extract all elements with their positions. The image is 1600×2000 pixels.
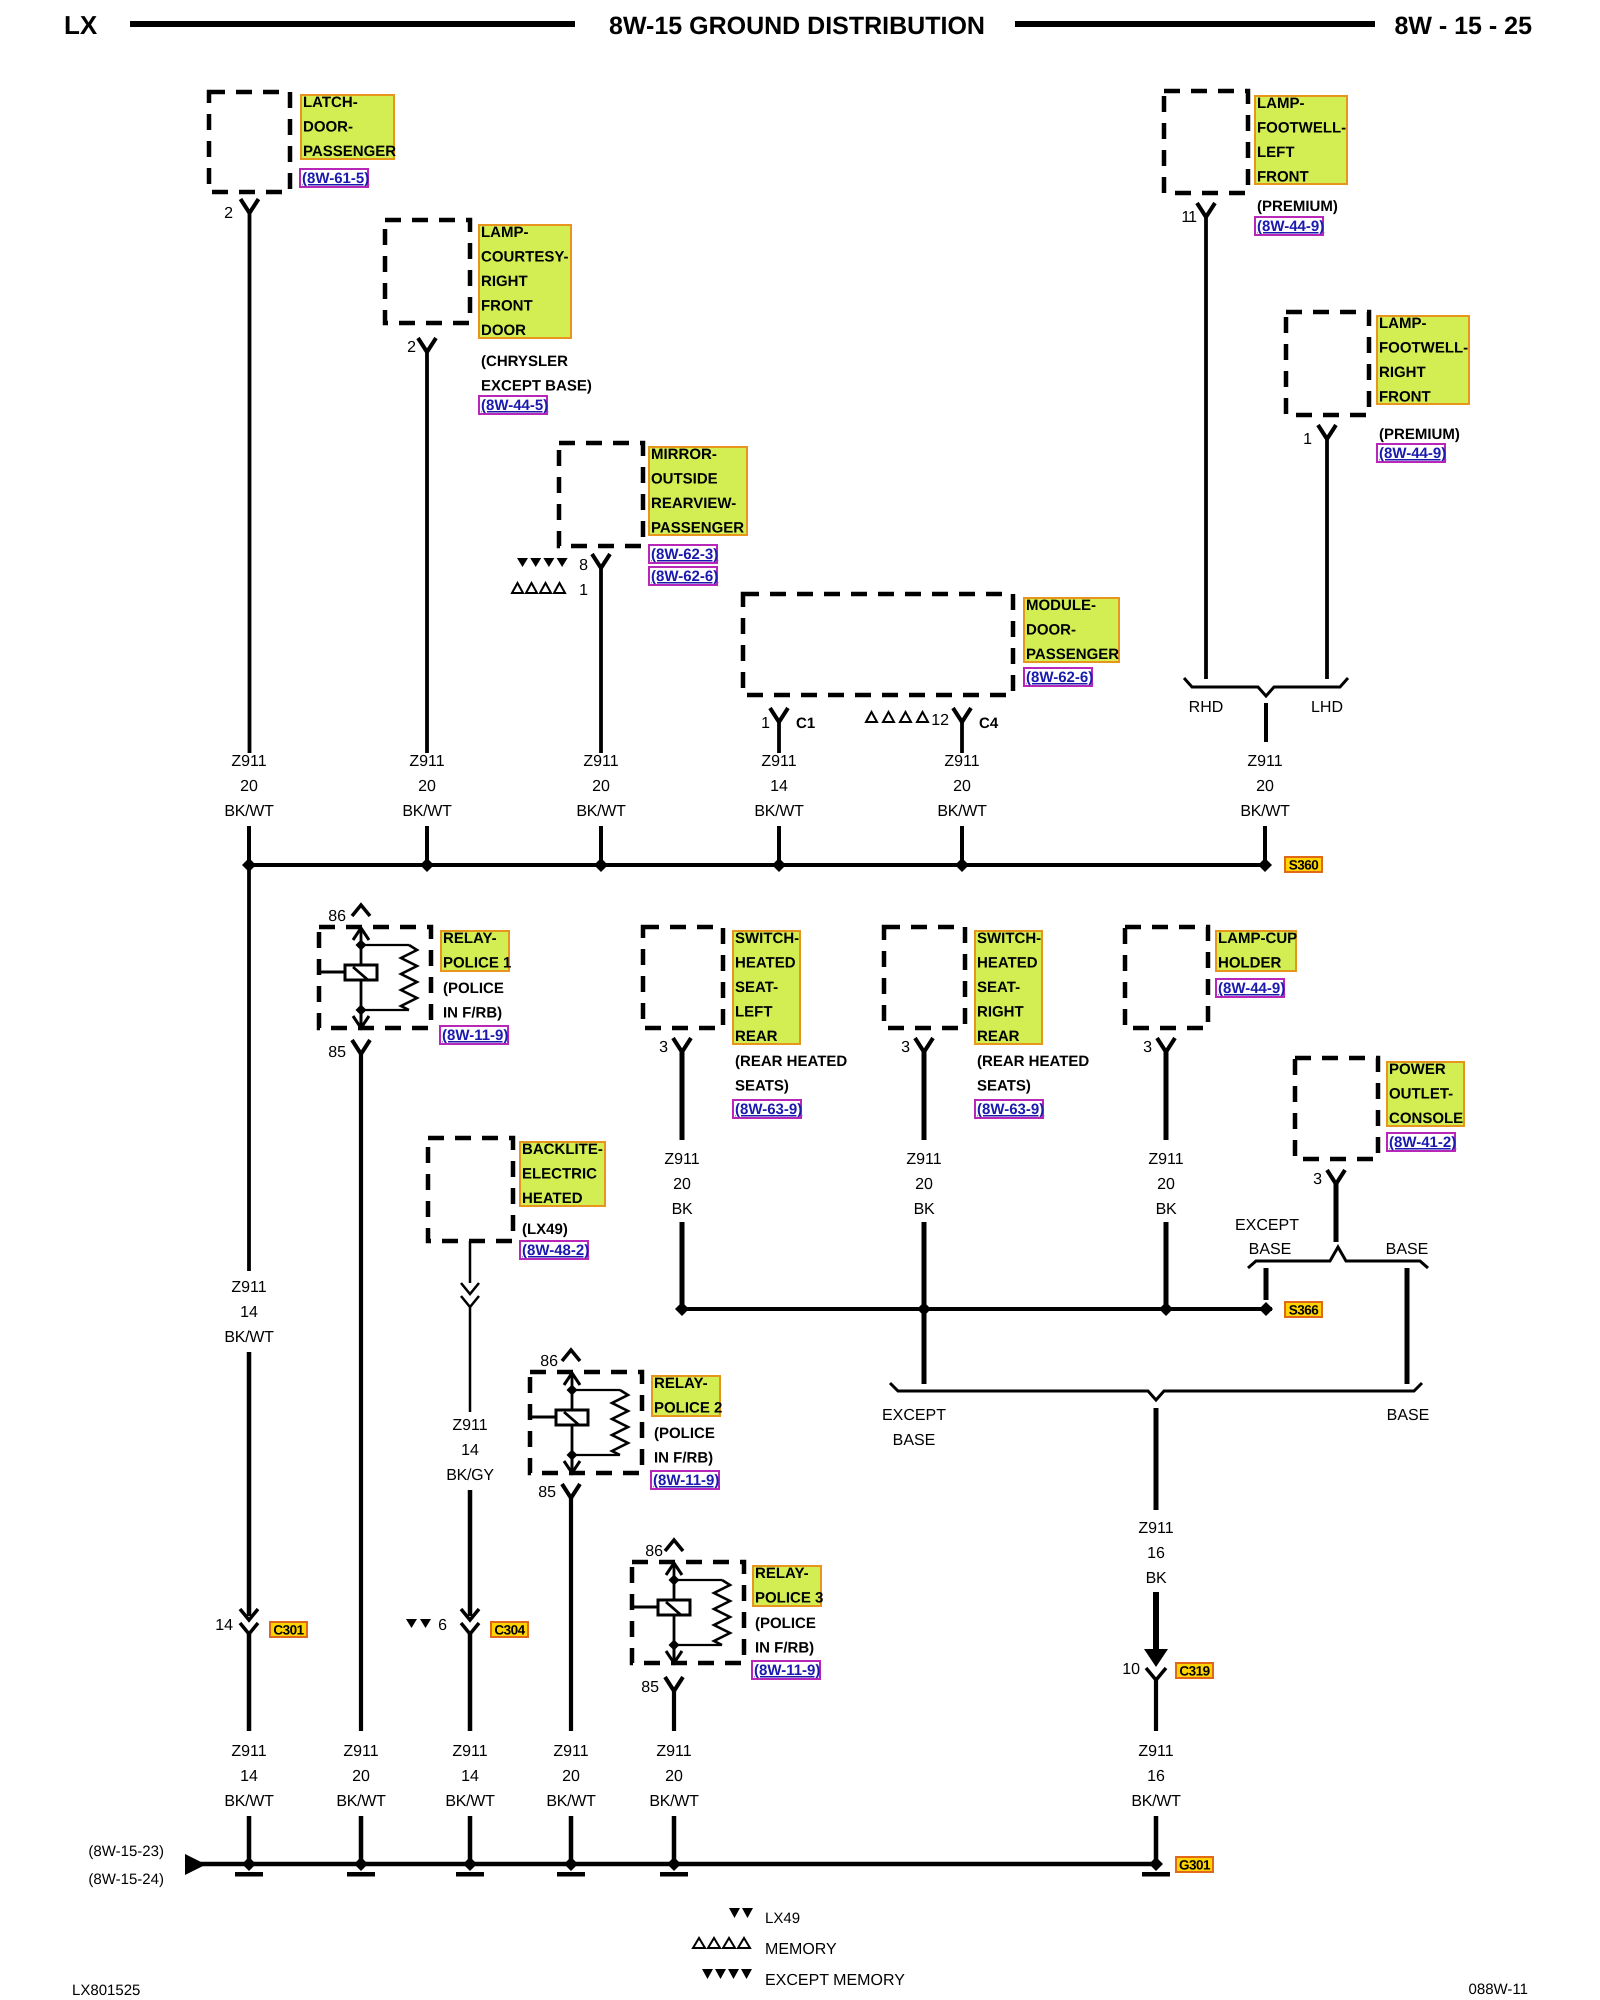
svg-text:2: 2 <box>407 339 416 356</box>
svg-text:LEFT: LEFT <box>1257 144 1295 161</box>
svg-text:MODULE-: MODULE- <box>1026 597 1096 614</box>
svg-text:BK/WT: BK/WT <box>754 803 804 820</box>
svg-text:RELAY-: RELAY- <box>654 1375 708 1392</box>
svg-text:POLICE 2: POLICE 2 <box>654 1400 722 1417</box>
svg-text:RIGHT: RIGHT <box>977 1004 1024 1021</box>
svg-text:HOLDER: HOLDER <box>1218 955 1282 972</box>
svg-text:20: 20 <box>592 778 610 795</box>
svg-text:LAMP-: LAMP- <box>481 224 529 241</box>
svg-text:86: 86 <box>540 1353 558 1370</box>
svg-text:LAMP-: LAMP- <box>1257 95 1305 112</box>
svg-text:(8W-11-9): (8W-11-9) <box>754 1662 820 1679</box>
svg-text:RIGHT: RIGHT <box>481 273 528 290</box>
svg-text:BK/WT: BK/WT <box>224 803 274 820</box>
svg-text:BK/WT: BK/WT <box>445 1793 495 1810</box>
svg-text:85: 85 <box>328 1044 346 1061</box>
svg-text:20: 20 <box>240 778 258 795</box>
svg-text:DOOR-: DOOR- <box>303 119 353 136</box>
svg-text:EXCEPT: EXCEPT <box>882 1407 946 1424</box>
svg-text:RELAY-: RELAY- <box>443 930 497 947</box>
svg-text:14: 14 <box>240 1768 258 1785</box>
svg-text:(REAR HEATED: (REAR HEATED <box>977 1053 1089 1070</box>
svg-text:SEAT-: SEAT- <box>977 979 1020 996</box>
svg-text:BK/WT: BK/WT <box>576 803 626 820</box>
svg-text:SEATS): SEATS) <box>735 1078 789 1095</box>
svg-text:C1: C1 <box>796 715 815 732</box>
svg-text:(8W-15-23): (8W-15-23) <box>88 1843 164 1860</box>
svg-text:14: 14 <box>240 1304 258 1321</box>
svg-text:C304: C304 <box>494 1623 525 1638</box>
svg-text:BASE: BASE <box>1249 1241 1292 1258</box>
svg-text:Z911: Z911 <box>343 1743 378 1760</box>
svg-text:Z911: Z911 <box>231 753 266 770</box>
svg-text:POWER: POWER <box>1389 1061 1446 1078</box>
svg-text:20: 20 <box>1256 778 1274 795</box>
svg-text:REAR: REAR <box>735 1028 778 1045</box>
svg-text:PASSENGER: PASSENGER <box>303 143 396 160</box>
svg-text:(8W-11-9): (8W-11-9) <box>442 1027 508 1044</box>
svg-text:EXCEPT MEMORY: EXCEPT MEMORY <box>765 1972 905 1989</box>
svg-text:C4: C4 <box>979 715 999 732</box>
svg-text:Z911: Z911 <box>944 753 979 770</box>
svg-text:SWITCH-: SWITCH- <box>735 930 799 947</box>
svg-text:BK: BK <box>672 1201 693 1218</box>
svg-text:Z911: Z911 <box>656 1743 691 1760</box>
svg-text:Z911: Z911 <box>906 1151 941 1168</box>
svg-text:BK/WT: BK/WT <box>937 803 987 820</box>
svg-text:S360: S360 <box>1289 858 1319 873</box>
svg-text:SWITCH-: SWITCH- <box>977 930 1041 947</box>
svg-text:BK/WT: BK/WT <box>546 1793 596 1810</box>
svg-text:Z911: Z911 <box>1247 753 1282 770</box>
svg-text:20: 20 <box>418 778 436 795</box>
svg-text:FOOTWELL-: FOOTWELL- <box>1379 340 1468 357</box>
svg-text:(8W-11-9): (8W-11-9) <box>653 1472 719 1489</box>
svg-text:11: 11 <box>1181 209 1197 226</box>
svg-text:3: 3 <box>1313 1171 1322 1188</box>
svg-text:088W-11: 088W-11 <box>1469 1981 1528 1998</box>
svg-text:(8W-48-2): (8W-48-2) <box>522 1242 589 1259</box>
svg-text:(8W-15-24): (8W-15-24) <box>88 1871 164 1888</box>
svg-text:BK: BK <box>1156 1201 1177 1218</box>
svg-text:C319: C319 <box>1179 1664 1209 1679</box>
svg-text:(8W-41-2): (8W-41-2) <box>1389 1134 1456 1151</box>
svg-text:COURTESY-: COURTESY- <box>481 249 569 266</box>
svg-text:Z911: Z911 <box>452 1743 487 1760</box>
svg-text:(8W-44-9): (8W-44-9) <box>1379 445 1446 462</box>
svg-text:(8W-44-9): (8W-44-9) <box>1218 980 1285 997</box>
svg-text:16: 16 <box>1147 1768 1165 1785</box>
svg-text:FRONT: FRONT <box>481 298 533 315</box>
svg-text:Z911: Z911 <box>583 753 618 770</box>
svg-text:20: 20 <box>665 1768 683 1785</box>
svg-text:RELAY-: RELAY- <box>755 1565 809 1582</box>
svg-text:14: 14 <box>461 1768 479 1785</box>
svg-text:2: 2 <box>224 205 233 222</box>
svg-text:(REAR HEATED: (REAR HEATED <box>735 1053 847 1070</box>
svg-text:BACKLITE-: BACKLITE- <box>522 1141 603 1158</box>
svg-text:BK/WT: BK/WT <box>1131 1793 1181 1810</box>
svg-text:FOOTWELL-: FOOTWELL- <box>1257 120 1346 137</box>
svg-text:REARVIEW-: REARVIEW- <box>651 495 736 512</box>
svg-text:(8W-62-3): (8W-62-3) <box>651 546 718 563</box>
svg-text:86: 86 <box>645 1543 663 1560</box>
svg-text:(PREMIUM): (PREMIUM) <box>1257 198 1338 215</box>
svg-text:(POLICE: (POLICE <box>654 1425 715 1442</box>
svg-text:12: 12 <box>931 712 949 729</box>
svg-text:LX49: LX49 <box>765 1910 800 1927</box>
svg-text:LX: LX <box>64 10 98 40</box>
svg-text:BASE: BASE <box>1386 1241 1429 1258</box>
svg-text:HEATED: HEATED <box>977 955 1038 972</box>
svg-text:SEATS): SEATS) <box>977 1078 1031 1095</box>
svg-text:LAMP-: LAMP- <box>1379 315 1427 332</box>
svg-text:EXCEPT: EXCEPT <box>1235 1217 1299 1234</box>
svg-text:BK/GY: BK/GY <box>446 1467 494 1484</box>
svg-text:85: 85 <box>538 1484 556 1501</box>
svg-text:85: 85 <box>641 1679 659 1696</box>
svg-text:PASSENGER: PASSENGER <box>1026 646 1119 663</box>
svg-text:Z911: Z911 <box>553 1743 588 1760</box>
svg-text:14: 14 <box>461 1442 479 1459</box>
svg-text:Z911: Z911 <box>452 1417 487 1434</box>
svg-text:REAR: REAR <box>977 1028 1020 1045</box>
svg-text:HEATED: HEATED <box>522 1190 583 1207</box>
svg-text:16: 16 <box>1147 1545 1165 1562</box>
svg-text:BASE: BASE <box>1387 1407 1430 1424</box>
svg-text:G301: G301 <box>1179 1858 1211 1873</box>
svg-text:IN F/RB): IN F/RB) <box>755 1640 814 1657</box>
svg-text:RHD: RHD <box>1189 699 1224 716</box>
svg-text:LAMP-CUP: LAMP-CUP <box>1218 930 1297 947</box>
svg-text:IN F/RB): IN F/RB) <box>443 1005 502 1022</box>
svg-text:BK: BK <box>914 1201 935 1218</box>
svg-text:BK: BK <box>1146 1570 1167 1587</box>
svg-text:20: 20 <box>673 1176 691 1193</box>
svg-text:Z911: Z911 <box>231 1743 266 1760</box>
svg-text:EXCEPT BASE): EXCEPT BASE) <box>481 378 592 395</box>
svg-text:(PREMIUM): (PREMIUM) <box>1379 426 1460 443</box>
svg-text:MEMORY: MEMORY <box>765 1941 837 1958</box>
svg-text:(8W-44-9): (8W-44-9) <box>1257 218 1324 235</box>
svg-text:LHD: LHD <box>1311 699 1343 716</box>
svg-text:14: 14 <box>215 1617 233 1634</box>
svg-text:3: 3 <box>1143 1039 1152 1056</box>
svg-text:20: 20 <box>915 1176 933 1193</box>
svg-text:BK/WT: BK/WT <box>224 1329 274 1346</box>
svg-text:BK/WT: BK/WT <box>402 803 452 820</box>
svg-text:86: 86 <box>328 908 346 925</box>
svg-text:Z911: Z911 <box>409 753 444 770</box>
svg-text:(8W-62-6): (8W-62-6) <box>1026 669 1093 686</box>
svg-text:8W-15 GROUND DISTRIBUTION: 8W-15 GROUND DISTRIBUTION <box>609 12 985 40</box>
svg-text:1: 1 <box>1303 431 1312 448</box>
svg-text:DOOR: DOOR <box>481 322 526 339</box>
svg-text:BK/WT: BK/WT <box>1240 803 1290 820</box>
svg-text:CONSOLE: CONSOLE <box>1389 1110 1463 1127</box>
svg-text:ELECTRIC: ELECTRIC <box>522 1166 597 1183</box>
svg-text:20: 20 <box>352 1768 370 1785</box>
svg-text:HEATED: HEATED <box>735 955 796 972</box>
svg-text:SEAT-: SEAT- <box>735 979 778 996</box>
svg-text:Z911: Z911 <box>1138 1520 1173 1537</box>
svg-text:LATCH-: LATCH- <box>303 94 358 111</box>
svg-text:BK/WT: BK/WT <box>649 1793 699 1810</box>
svg-text:RIGHT: RIGHT <box>1379 364 1426 381</box>
svg-text:(8W-61-5): (8W-61-5) <box>302 170 369 187</box>
svg-text:Z911: Z911 <box>231 1279 266 1296</box>
svg-text:POLICE 3: POLICE 3 <box>755 1590 823 1607</box>
svg-text:LEFT: LEFT <box>735 1004 773 1021</box>
svg-text:BASE: BASE <box>893 1432 936 1449</box>
svg-text:8: 8 <box>579 557 588 574</box>
svg-text:3: 3 <box>901 1039 910 1056</box>
svg-text:6: 6 <box>438 1617 447 1634</box>
svg-text:(8W-44-5): (8W-44-5) <box>481 397 548 414</box>
svg-text:BK/WT: BK/WT <box>336 1793 386 1810</box>
svg-text:20: 20 <box>562 1768 580 1785</box>
svg-text:FRONT: FRONT <box>1257 169 1309 186</box>
svg-text:Z911: Z911 <box>1138 1743 1173 1760</box>
svg-text:OUTSIDE: OUTSIDE <box>651 471 718 488</box>
svg-text:BK/WT: BK/WT <box>224 1793 274 1810</box>
svg-text:20: 20 <box>953 778 971 795</box>
svg-text:S366: S366 <box>1289 1303 1320 1318</box>
svg-text:FRONT: FRONT <box>1379 389 1431 406</box>
svg-text:(CHRYSLER: (CHRYSLER <box>481 353 568 370</box>
svg-text:PASSENGER: PASSENGER <box>651 520 744 537</box>
svg-text:C301: C301 <box>273 1623 304 1638</box>
svg-text:20: 20 <box>1157 1176 1175 1193</box>
svg-text:14: 14 <box>770 778 788 795</box>
svg-text:Z911: Z911 <box>1148 1151 1183 1168</box>
svg-text:(8W-63-9): (8W-63-9) <box>735 1101 802 1118</box>
svg-text:(POLICE: (POLICE <box>755 1615 816 1632</box>
svg-text:(POLICE: (POLICE <box>443 980 504 997</box>
svg-text:(8W-62-6): (8W-62-6) <box>651 568 718 585</box>
svg-text:IN F/RB): IN F/RB) <box>654 1450 713 1467</box>
svg-text:1: 1 <box>761 715 770 732</box>
svg-text:LX801525: LX801525 <box>72 1982 140 1999</box>
svg-text:DOOR-: DOOR- <box>1026 622 1076 639</box>
svg-text:MIRROR-: MIRROR- <box>651 446 717 463</box>
svg-text:(LX49): (LX49) <box>522 1221 568 1238</box>
svg-text:Z911: Z911 <box>664 1151 699 1168</box>
svg-text:10: 10 <box>1122 1661 1140 1678</box>
svg-text:Z911: Z911 <box>761 753 796 770</box>
svg-text:OUTLET-: OUTLET- <box>1389 1086 1453 1103</box>
svg-text:8W - 15 - 25: 8W - 15 - 25 <box>1394 12 1532 40</box>
svg-text:(8W-63-9): (8W-63-9) <box>977 1101 1044 1118</box>
svg-text:1: 1 <box>579 582 588 599</box>
svg-text:POLICE 1: POLICE 1 <box>443 955 511 972</box>
svg-text:3: 3 <box>659 1039 668 1056</box>
